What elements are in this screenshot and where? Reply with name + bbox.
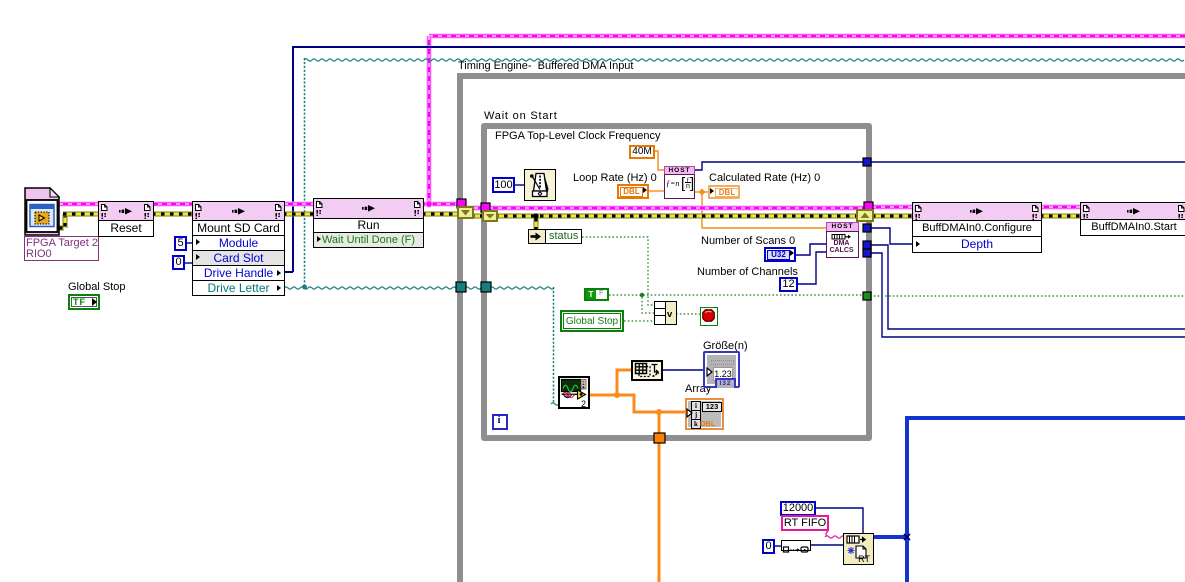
Loop Rate DBL control — [617, 184, 649, 199]
error wire from FPGA target (jog) — [59, 226, 64, 231]
tunnel: Drive Letter inner loop — [481, 282, 491, 292]
wire: 0 to Card Slot — [184, 262, 196, 264]
error wire Mount SD Card to Run — [283, 212, 314, 217]
junction on boolean wire — [640, 293, 644, 297]
string wire from RT FIFO constant — [826, 524, 828, 536]
invoke node Reset — [98, 201, 154, 237]
invoke node BuffDMAIn0.Configure — [912, 202, 1042, 253]
wire: status to Or node — [582, 237, 655, 305]
shift register: error inner loop right — [857, 210, 873, 221]
wire: formula output to Calculated Rate + down to DMA CALCS — [694, 191, 710, 193]
RT FIFO create node — [843, 533, 874, 565]
constant 5 — [174, 236, 187, 251]
label Number of Scans 0 — [701, 235, 795, 247]
wire: Loop Rate DBL to formula node — [649, 190, 665, 192]
Global Stop TF control — [68, 294, 100, 310]
Global Stop local variable — [560, 310, 624, 332]
invoke node BuffDMAIn0.Start — [1080, 202, 1185, 236]
tunnel: DMA out lower — [863, 249, 871, 257]
tunnel: FPGA ref into inner loop — [481, 203, 490, 212]
Wait ms metronome icon — [524, 169, 556, 201]
wire: tunnel to Depth input — [870, 228, 914, 244]
invoke node Run — [313, 198, 424, 248]
FPGA ref wire between tunnels — [465, 206, 483, 211]
tunnel: Drive Letter outer loop — [456, 282, 466, 292]
loop iteration terminal — [492, 414, 508, 430]
constant 0 (elements) — [762, 539, 775, 554]
label FPGA Top-Level Clock Frequency — [495, 130, 660, 142]
subVI HOST DMA CALCS — [826, 222, 859, 256]
error wire right of inner loop — [872, 214, 913, 219]
constant 100 — [492, 177, 515, 193]
error wire between shift registers — [471, 214, 484, 219]
constant 12 — [779, 277, 798, 292]
label Calculated Rate — [709, 172, 820, 184]
wire: 100 to Wait ms — [515, 184, 525, 186]
while loop "Timing Engine- Buffered DMA Input" left border — [457, 73, 463, 582]
Groesse(n) I32 array indicator — [703, 351, 740, 388]
reshape array icon — [631, 360, 663, 381]
FPGA Target 2 RIO0 icon — [24, 187, 61, 236]
tunnel: FPGA ref into outer loop — [457, 199, 466, 208]
while loop "Timing Engine- Buffered DMA Input" top border — [457, 73, 1185, 79]
FPGA Target 2 RIO0 label — [24, 236, 99, 261]
Drive Letter path wire (teal) top run — [304, 59, 1184, 61]
boolean wire to right edge — [870, 295, 1185, 297]
constant 12000 — [780, 501, 816, 516]
tunnel: DMA out upper — [863, 241, 871, 249]
wire: SD read out to junction — [589, 394, 618, 397]
label Array (partially hidden) — [685, 383, 711, 395]
Drive Letter path wire vertical — [304, 58, 306, 287]
Drive Letter wire main run — [284, 287, 456, 289]
label Loop Rate — [573, 172, 657, 184]
error wire Run to loop tunnel — [422, 212, 459, 217]
label Number of Channels — [697, 266, 798, 278]
FPGA ref wire (magenta dashed) top run — [429, 34, 1185, 39]
wire: 5 to Module — [186, 242, 196, 244]
compound arithmetic Or node — [654, 301, 677, 325]
FPGA ref wire right of inner loop — [872, 205, 913, 210]
U32 control — [764, 247, 796, 262]
junction dot — [614, 392, 620, 398]
wire: 40M to HOST formula node — [655, 151, 665, 170]
empty array constant — [781, 540, 811, 551]
wire: RT FIFO create out — [873, 535, 907, 539]
wire: junction to Array indicator — [617, 395, 687, 412]
wire: 12000 to RT FIFO create — [815, 508, 863, 534]
FPGA ref wire vertical from top run down to main run — [427, 36, 432, 204]
Drive Handle wire (navy) top run — [293, 47, 1185, 272]
Global Stop label — [68, 281, 128, 293]
wire: 12 channels to DMA CALCS — [797, 252, 827, 284]
FPGA ref wire between Configure and Start — [1040, 205, 1081, 210]
label Timing Engine — [458, 60, 633, 72]
wire: junction up to matrix node — [617, 370, 632, 396]
Calculated Rate DBL indicator — [708, 185, 740, 199]
error wire branch down to status unbundler — [534, 218, 539, 230]
tunnel: FPGA ref out of inner loop — [864, 202, 873, 210]
wire: formula HOST output to tunnel and right edge — [694, 162, 1185, 170]
constant 40M — [629, 145, 655, 159]
label Wait on Start — [484, 110, 558, 122]
Drive Letter wire down to SD read icon — [553, 287, 555, 403]
formula node HOST f=n — [664, 166, 695, 198]
FPGA ref wire inside loop — [489, 206, 865, 211]
wire: matrix node to Groesse indicator — [662, 369, 704, 371]
junction marker — [904, 534, 910, 540]
error wire between Configure and Start — [1040, 214, 1081, 219]
junction dot 2 — [656, 409, 662, 415]
junction dot FPGA ref wire — [426, 201, 432, 207]
wire: Global Stop to Or node — [624, 320, 655, 322]
unbundle status node — [528, 229, 582, 244]
wire: TF constant to loop tunnel — [609, 294, 864, 296]
shift register: error inner loop left — [483, 211, 497, 221]
shift register: error outer loop left — [458, 207, 473, 218]
Array DBL indicator — [685, 398, 724, 430]
wire: junction down through tunnel and below — [658, 412, 661, 582]
error wire inside loop — [495, 214, 858, 219]
FPGA ref wire main run (left of loop) — [59, 202, 458, 207]
RT FIFO string constant — [781, 515, 829, 531]
tunnel: calculated rate out — [863, 158, 871, 166]
wire: 0 to array node — [774, 545, 782, 547]
tunnel: array data out bottom — [654, 433, 665, 443]
wire: U32 scans to DMA CALCS — [796, 244, 827, 255]
tunnel: boolean out — [863, 292, 871, 300]
wire: junction down to Or node — [642, 297, 655, 313]
SD read scope icon — [558, 376, 590, 409]
tunnel: DMA depth out — [863, 224, 871, 232]
label Groesse(n) — [703, 340, 748, 352]
invoke node Mount SD Card — [192, 201, 285, 296]
wire: DMA CALCS out to right edge (lower) — [870, 253, 1185, 337]
error wire Reset to Mount SD Card — [152, 212, 193, 217]
wire: array node to RT FIFO create — [810, 544, 844, 546]
RT FIFO refnum wire to the right/bottom — [906, 416, 1185, 420]
while loop "Wait on Start" frame — [481, 123, 872, 441]
wire: Or node to stop button — [676, 313, 701, 315]
stop button — [700, 307, 718, 326]
junction dot formula output — [699, 189, 706, 196]
wire: DMA CALCS out to right edge (upper) — [870, 245, 1185, 329]
constant 0 — [172, 255, 185, 270]
TF true constant — [584, 288, 609, 301]
